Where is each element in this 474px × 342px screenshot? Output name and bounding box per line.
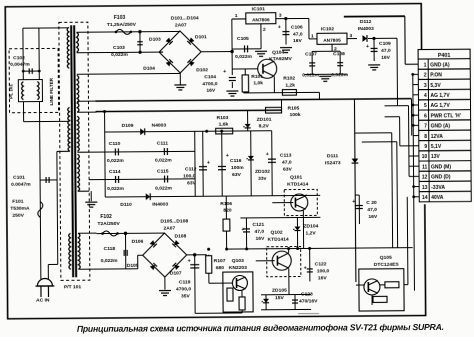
svg-text:5: 5 xyxy=(424,103,427,109)
svg-text:C110: C110 xyxy=(109,141,121,147)
svg-text:47,0: 47,0 xyxy=(282,160,292,166)
svg-text:15V: 15V xyxy=(275,295,285,301)
svg-text:IN4003: IN4003 xyxy=(358,26,374,32)
svg-text:Q101: Q101 xyxy=(290,174,302,180)
svg-text:PL 101: PL 101 xyxy=(8,84,13,99)
svg-text:R107: R107 xyxy=(214,258,226,264)
svg-text:C107: C107 xyxy=(305,51,317,57)
svg-text:4: 4 xyxy=(424,93,427,99)
svg-text:14: 14 xyxy=(422,195,428,201)
svg-text:Q102: Q102 xyxy=(270,230,282,236)
svg-text:Q103: Q103 xyxy=(232,258,244,264)
svg-text:IN4003: IN4003 xyxy=(152,202,168,208)
svg-text:R102: R102 xyxy=(283,76,295,82)
svg-text:GND (A): GND (A) xyxy=(431,123,451,129)
svg-text:8: 8 xyxy=(424,134,427,140)
svg-text:DTC124ES: DTC124ES xyxy=(374,262,400,268)
svg-text:5,3V: 5,3V xyxy=(430,83,441,89)
svg-text:47,0: 47,0 xyxy=(293,31,303,37)
svg-text:16V: 16V xyxy=(381,55,391,61)
svg-text:GND (D): GND (D) xyxy=(431,174,451,180)
svg-text:D104: D104 xyxy=(143,66,155,72)
svg-text:+: + xyxy=(223,69,226,75)
svg-text:C114: C114 xyxy=(109,169,121,175)
svg-text:C109: C109 xyxy=(379,41,391,47)
svg-text:1,2k: 1,2k xyxy=(285,83,295,89)
svg-text:ZD101: ZD101 xyxy=(257,117,272,123)
svg-text:40VA: 40VA xyxy=(431,195,444,201)
svg-text:0,022m: 0,022m xyxy=(107,158,124,164)
svg-text:C112: C112 xyxy=(185,166,197,172)
svg-text:2A07: 2A07 xyxy=(175,22,187,28)
svg-text:C111: C111 xyxy=(157,141,169,147)
svg-text:10: 10 xyxy=(422,154,428,160)
svg-text:AN7806: AN7806 xyxy=(252,17,270,23)
svg-text:0,022m: 0,022m xyxy=(107,186,124,192)
svg-text:D102: D102 xyxy=(196,67,208,73)
svg-text:D110: D110 xyxy=(120,202,132,208)
svg-text:9: 9 xyxy=(424,144,427,150)
svg-text:C102: C102 xyxy=(13,55,25,61)
svg-text:6: 6 xyxy=(424,113,427,119)
svg-text:12: 12 xyxy=(422,175,428,181)
svg-text:-33VA: -33VA xyxy=(431,185,445,191)
svg-text:D112: D112 xyxy=(360,19,372,25)
svg-text:P401: P401 xyxy=(438,53,451,59)
svg-text:33v: 33v xyxy=(258,176,267,182)
svg-text:C108: C108 xyxy=(333,51,345,57)
svg-text:D103: D103 xyxy=(149,37,161,43)
svg-text:4700,0: 4700,0 xyxy=(202,81,217,87)
svg-text:16V: 16V xyxy=(368,214,378,220)
svg-text:13: 13 xyxy=(422,185,428,191)
svg-text:C 20: C 20 xyxy=(366,200,377,206)
svg-text:D111: D111 xyxy=(327,153,339,159)
svg-text:35V: 35V xyxy=(181,293,191,299)
svg-text:C103: C103 xyxy=(113,45,125,51)
svg-text:0,022m: 0,022m xyxy=(155,186,172,192)
svg-text:2: 2 xyxy=(424,73,427,79)
svg-text:GND (A): GND (A) xyxy=(430,62,450,68)
svg-text:R103: R103 xyxy=(217,115,229,121)
svg-text:C104: C104 xyxy=(204,74,216,80)
svg-text:7: 7 xyxy=(424,124,427,130)
svg-text:5,1V: 5,1V xyxy=(431,144,442,150)
svg-text:100m: 100m xyxy=(231,165,244,171)
svg-text:C115: C115 xyxy=(157,169,169,175)
svg-text:12VA: 12VA xyxy=(431,134,444,140)
svg-text:C116: C116 xyxy=(230,158,242,164)
svg-text:680: 680 xyxy=(216,265,225,271)
svg-text:D105: D105 xyxy=(127,263,139,269)
svg-text:250V: 250V xyxy=(12,213,24,219)
svg-text:KTD1414: KTD1414 xyxy=(268,237,289,243)
svg-text:1,6k: 1,6k xyxy=(219,122,229,128)
svg-text:63V: 63V xyxy=(283,167,293,173)
svg-text:D109: D109 xyxy=(122,123,134,129)
svg-text:IC102: IC102 xyxy=(321,26,334,32)
svg-text:R105: R105 xyxy=(288,106,300,112)
svg-text:C113: C113 xyxy=(280,153,292,159)
svg-text:+: + xyxy=(226,153,229,159)
svg-text:AG 1,7V: AG 1,7V xyxy=(430,93,450,99)
svg-text:16V: 16V xyxy=(256,236,266,242)
svg-text:1,0k: 1,0k xyxy=(253,80,263,86)
svg-text:N4003: N4003 xyxy=(152,123,167,129)
svg-text:1: 1 xyxy=(424,62,427,68)
svg-text:D108: D108 xyxy=(175,233,187,239)
svg-text:0,022m: 0,022m xyxy=(111,52,128,58)
svg-text:AN7805: AN7805 xyxy=(323,38,341,44)
svg-text:1: 1 xyxy=(235,13,238,19)
svg-text:100,0: 100,0 xyxy=(317,268,330,274)
svg-text:PWR CTL ’H’: PWR CTL ’H’ xyxy=(431,113,462,119)
svg-text:IS2473: IS2473 xyxy=(325,160,341,166)
svg-text:63V: 63V xyxy=(232,172,242,178)
svg-text:13V: 13V xyxy=(431,154,441,160)
svg-text:R106: R106 xyxy=(220,201,232,207)
svg-text:C105: C105 xyxy=(237,36,249,42)
svg-text:ZD104: ZD104 xyxy=(303,223,318,229)
svg-text:1,2V: 1,2V xyxy=(305,230,316,236)
svg-text:3: 3 xyxy=(424,83,427,89)
svg-text:C123: C123 xyxy=(301,291,313,297)
svg-text:F103: F103 xyxy=(114,15,126,21)
svg-text:D107: D107 xyxy=(170,270,182,276)
svg-text:+: + xyxy=(188,258,191,264)
svg-text:Q105: Q105 xyxy=(380,255,392,261)
svg-text:D101: D101 xyxy=(195,34,207,40)
svg-text:47,0: 47,0 xyxy=(254,229,264,235)
svg-text:T1,25A/250V: T1,25A/250V xyxy=(107,22,137,28)
svg-text:47,0: 47,0 xyxy=(381,48,391,54)
svg-text:2: 2 xyxy=(263,27,266,33)
svg-text:T530mA: T530mA xyxy=(10,206,30,212)
svg-text:0,022m: 0,022m xyxy=(302,72,319,78)
svg-text:3: 3 xyxy=(279,13,282,19)
svg-text:820: 820 xyxy=(223,208,232,214)
svg-text:16V: 16V xyxy=(318,275,328,281)
svg-text:LINE FILTER: LINE FILTER xyxy=(49,77,54,105)
svg-text:Принципиальная схема источника: Принципиальная схема источника питания в… xyxy=(77,322,444,334)
svg-text:0,0047m: 0,0047m xyxy=(10,62,30,68)
svg-text:P/T 101: P/T 101 xyxy=(64,284,82,290)
svg-text:C122: C122 xyxy=(315,261,327,267)
svg-text:AG 1,7V: AG 1,7V xyxy=(430,103,450,109)
svg-text:470/16V: 470/16V xyxy=(299,298,318,304)
svg-text:P.ON: P.ON xyxy=(430,72,442,78)
svg-text:+: + xyxy=(352,199,355,205)
svg-text:C121: C121 xyxy=(252,222,264,228)
svg-text:R101: R101 xyxy=(251,74,263,80)
svg-text:T2A/250V: T2A/250V xyxy=(97,221,120,227)
svg-text:IC101: IC101 xyxy=(252,6,265,12)
svg-text:D105...D108: D105...D108 xyxy=(160,218,188,224)
svg-text:C119: C119 xyxy=(179,279,191,285)
svg-text:GND (M): GND (M) xyxy=(431,164,451,170)
svg-text:ZD105: ZD105 xyxy=(272,288,287,294)
svg-text:16V: 16V xyxy=(293,38,303,44)
svg-text:0,022m: 0,022m xyxy=(331,72,348,78)
svg-text:D101...D104: D101...D104 xyxy=(171,15,199,21)
svg-text:0,022m: 0,022m xyxy=(101,258,118,264)
svg-text:C118: C118 xyxy=(104,246,116,252)
svg-text:63V: 63V xyxy=(187,180,197,186)
svg-text:+: + xyxy=(241,227,244,233)
svg-text:4700,0: 4700,0 xyxy=(176,286,191,292)
svg-text:0,022m: 0,022m xyxy=(235,54,252,60)
svg-text:D106: D106 xyxy=(132,239,144,245)
svg-text:2A07: 2A07 xyxy=(163,225,175,231)
svg-text:+: + xyxy=(207,160,210,166)
svg-text:KTD1414: KTD1414 xyxy=(287,181,308,187)
svg-text:C106: C106 xyxy=(291,24,303,30)
svg-text:+: + xyxy=(266,152,269,158)
svg-text:+: + xyxy=(304,265,307,271)
svg-text:+: + xyxy=(278,25,281,31)
svg-text:+: + xyxy=(366,44,369,50)
svg-text:47,0: 47,0 xyxy=(367,207,377,213)
svg-text:AC IN: AC IN xyxy=(36,297,50,303)
svg-text:Q104: Q104 xyxy=(272,50,284,56)
svg-text:11: 11 xyxy=(422,164,428,170)
svg-text:F102: F102 xyxy=(100,214,112,220)
svg-text:0.0047m: 0.0047m xyxy=(11,182,31,188)
svg-text:KN2203: KN2203 xyxy=(229,265,247,271)
svg-text:ZD102: ZD102 xyxy=(255,169,270,175)
svg-text:100k: 100k xyxy=(290,112,301,118)
svg-text:0,022m: 0,022m xyxy=(155,158,172,164)
svg-text:16V: 16V xyxy=(206,88,216,94)
svg-text:8,2V: 8,2V xyxy=(259,123,270,129)
svg-text:100,0: 100,0 xyxy=(183,173,196,179)
svg-text:F101: F101 xyxy=(12,199,24,205)
svg-text:C101: C101 xyxy=(13,175,25,181)
